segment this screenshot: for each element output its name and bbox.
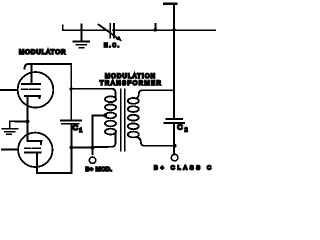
wire secondary top lead [137,90,175,98]
transformer T1 primary winding [105,96,116,134]
svg-text:MODULATOR: MODULATOR [19,49,66,56]
wire to transformer primary top [71,89,115,98]
tube V2 envelope [18,133,52,167]
transformer T1 secondary winding [128,98,139,137]
wire center tap to B+ [93,115,106,154]
terminal B+ CLASS C [171,154,178,161]
wire V2 plate to transformer bottom [37,148,72,174]
ground (cathode) [3,121,18,134]
svg-text:N.C.: N.C. [104,43,119,49]
node bus crossing dot [172,28,176,32]
wire right bus vertical [173,5,175,119]
wire right bus top bar [164,3,177,5]
svg-text:B+ CLASS C: B+ CLASS C [154,166,211,172]
node center tap [103,114,107,118]
node junction on top wire [154,24,158,32]
capacitor N.C. (neutralizing, variable) [99,24,123,42]
tube V1 grid (dashed) [22,88,40,90]
svg-text:TRANSFORMER: TRANSFORMER [100,81,162,87]
tube V1 cathode bar [25,96,40,99]
wire plate bus (V1 plate to transformer/C1) [70,64,72,120]
svg-text:2: 2 [185,127,188,133]
transformer core [121,90,125,151]
node cathode/ground junction [26,120,30,124]
wire to ground [10,120,28,122]
wire grid input V1 [1,89,18,91]
wire secondary bottom lead [137,137,176,146]
node plate bus to transformer [70,87,73,90]
capacitor C2 [165,119,185,154]
node C1 bottom junction [70,146,74,150]
svg-text:C: C [73,123,79,132]
wire cathode bus V1-V2 [27,96,29,141]
ground (top, near plate line) [74,25,90,48]
wire bottom (B+ mod line) [72,147,93,149]
tube V2 grid (dashed) [25,147,40,149]
tube V1 plate top wire [25,64,72,69]
tube V2 cathode bar [28,141,42,144]
node bottom wire junction [91,146,95,150]
svg-text:B+ MOD.: B+ MOD. [86,167,113,173]
tube V1 plate lead [31,64,33,84]
svg-text:1: 1 [79,128,82,134]
tube V2 plate bar [25,151,40,153]
tube V1 plate bar [22,83,40,85]
node C2/secondary junction [173,144,177,148]
svg-text:MODULATION: MODULATION [105,74,155,80]
capacitor C1 [61,120,81,147]
terminal B+ MOD [89,157,95,163]
wire primary bottom lead [72,133,116,148]
tube V1 envelope [18,72,54,108]
wire grid input V2 [2,148,18,150]
svg-text:C: C [177,122,183,131]
wire top bus horizontal [63,26,216,31]
